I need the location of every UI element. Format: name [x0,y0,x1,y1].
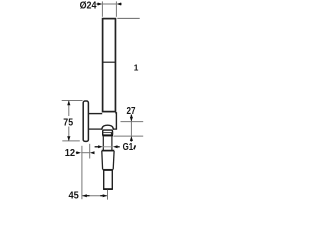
holder cone dome [102,125,114,130]
svg-text:Ø24: Ø24 [80,0,97,11]
label G1/2 fraction slash [134,145,136,149]
hose connector cylinder [104,170,113,189]
holder body top step (right of handle) [115,113,116,129]
spray head divider line [102,61,116,63]
holder body bottom edge [88,128,102,130]
svg-text:45: 45 [69,191,80,200]
dimension 45 line [82,195,107,197]
svg-text:G1: G1 [123,142,134,153]
dimension 27 top extension line [121,121,144,123]
coupling nut [103,130,113,135]
hose connector bottom edge [103,188,112,190]
holder body top edge (left of handle) [88,113,102,115]
extension line left of Ø24 [101,1,103,16]
dimension 27 vertical line [130,114,132,141]
arrow 12 left (points right) [76,152,78,154]
arrow 12 right (points left) [90,151,95,154]
G1/2 thread neck right side [111,136,113,150]
svg-text:1: 1 [134,62,139,72]
wall reference extension line (shared by 12 and 45) [81,146,83,199]
arrow G1/2 right (points left) [113,145,118,148]
arrow 45 right (points right) [100,195,103,197]
dimension 75 line lower segment [68,127,70,141]
extension line right of Ø24 [115,1,117,16]
dimension line Ø24 [102,3,116,5]
dimension 75 bottom extension line [62,140,80,142]
hose sleeve cone [102,150,115,152]
arrow G1/2 left (points right) [95,146,99,148]
arrow 45 left (points left) [82,194,87,197]
extension line 45 right (hose axis) [107,190,109,200]
nut inner line [103,132,113,134]
wall plate (escutcheon) [83,101,88,141]
leader line to spray head top [117,17,139,19]
G1/2 thread neck left side [102,136,104,150]
arrow 27 bottom (points up) [130,136,133,141]
arrow Ø24 right (points left) [117,3,122,6]
arrow 27 top (points down) [130,115,132,118]
nut shading patch [111,132,113,134]
dimension G1/2 thin line across neck [103,146,113,148]
dimension 27 bottom extension line [113,135,143,137]
dimension 12 line [81,152,90,154]
arrow 75 down [67,136,70,141]
svg-text:75: 75 [63,117,73,128]
hand shower handle (cylinder outline) [103,19,116,112]
extension line 12 right [89,144,91,159]
arrow Ø24 left (points right) [97,3,99,5]
nut bottom thick edge [102,134,113,136]
dimension 75 line upper segment [68,101,70,116]
arrow 75 up [67,101,70,106]
dimension 75 top extension line [62,100,83,102]
svg-text:12: 12 [65,148,76,159]
